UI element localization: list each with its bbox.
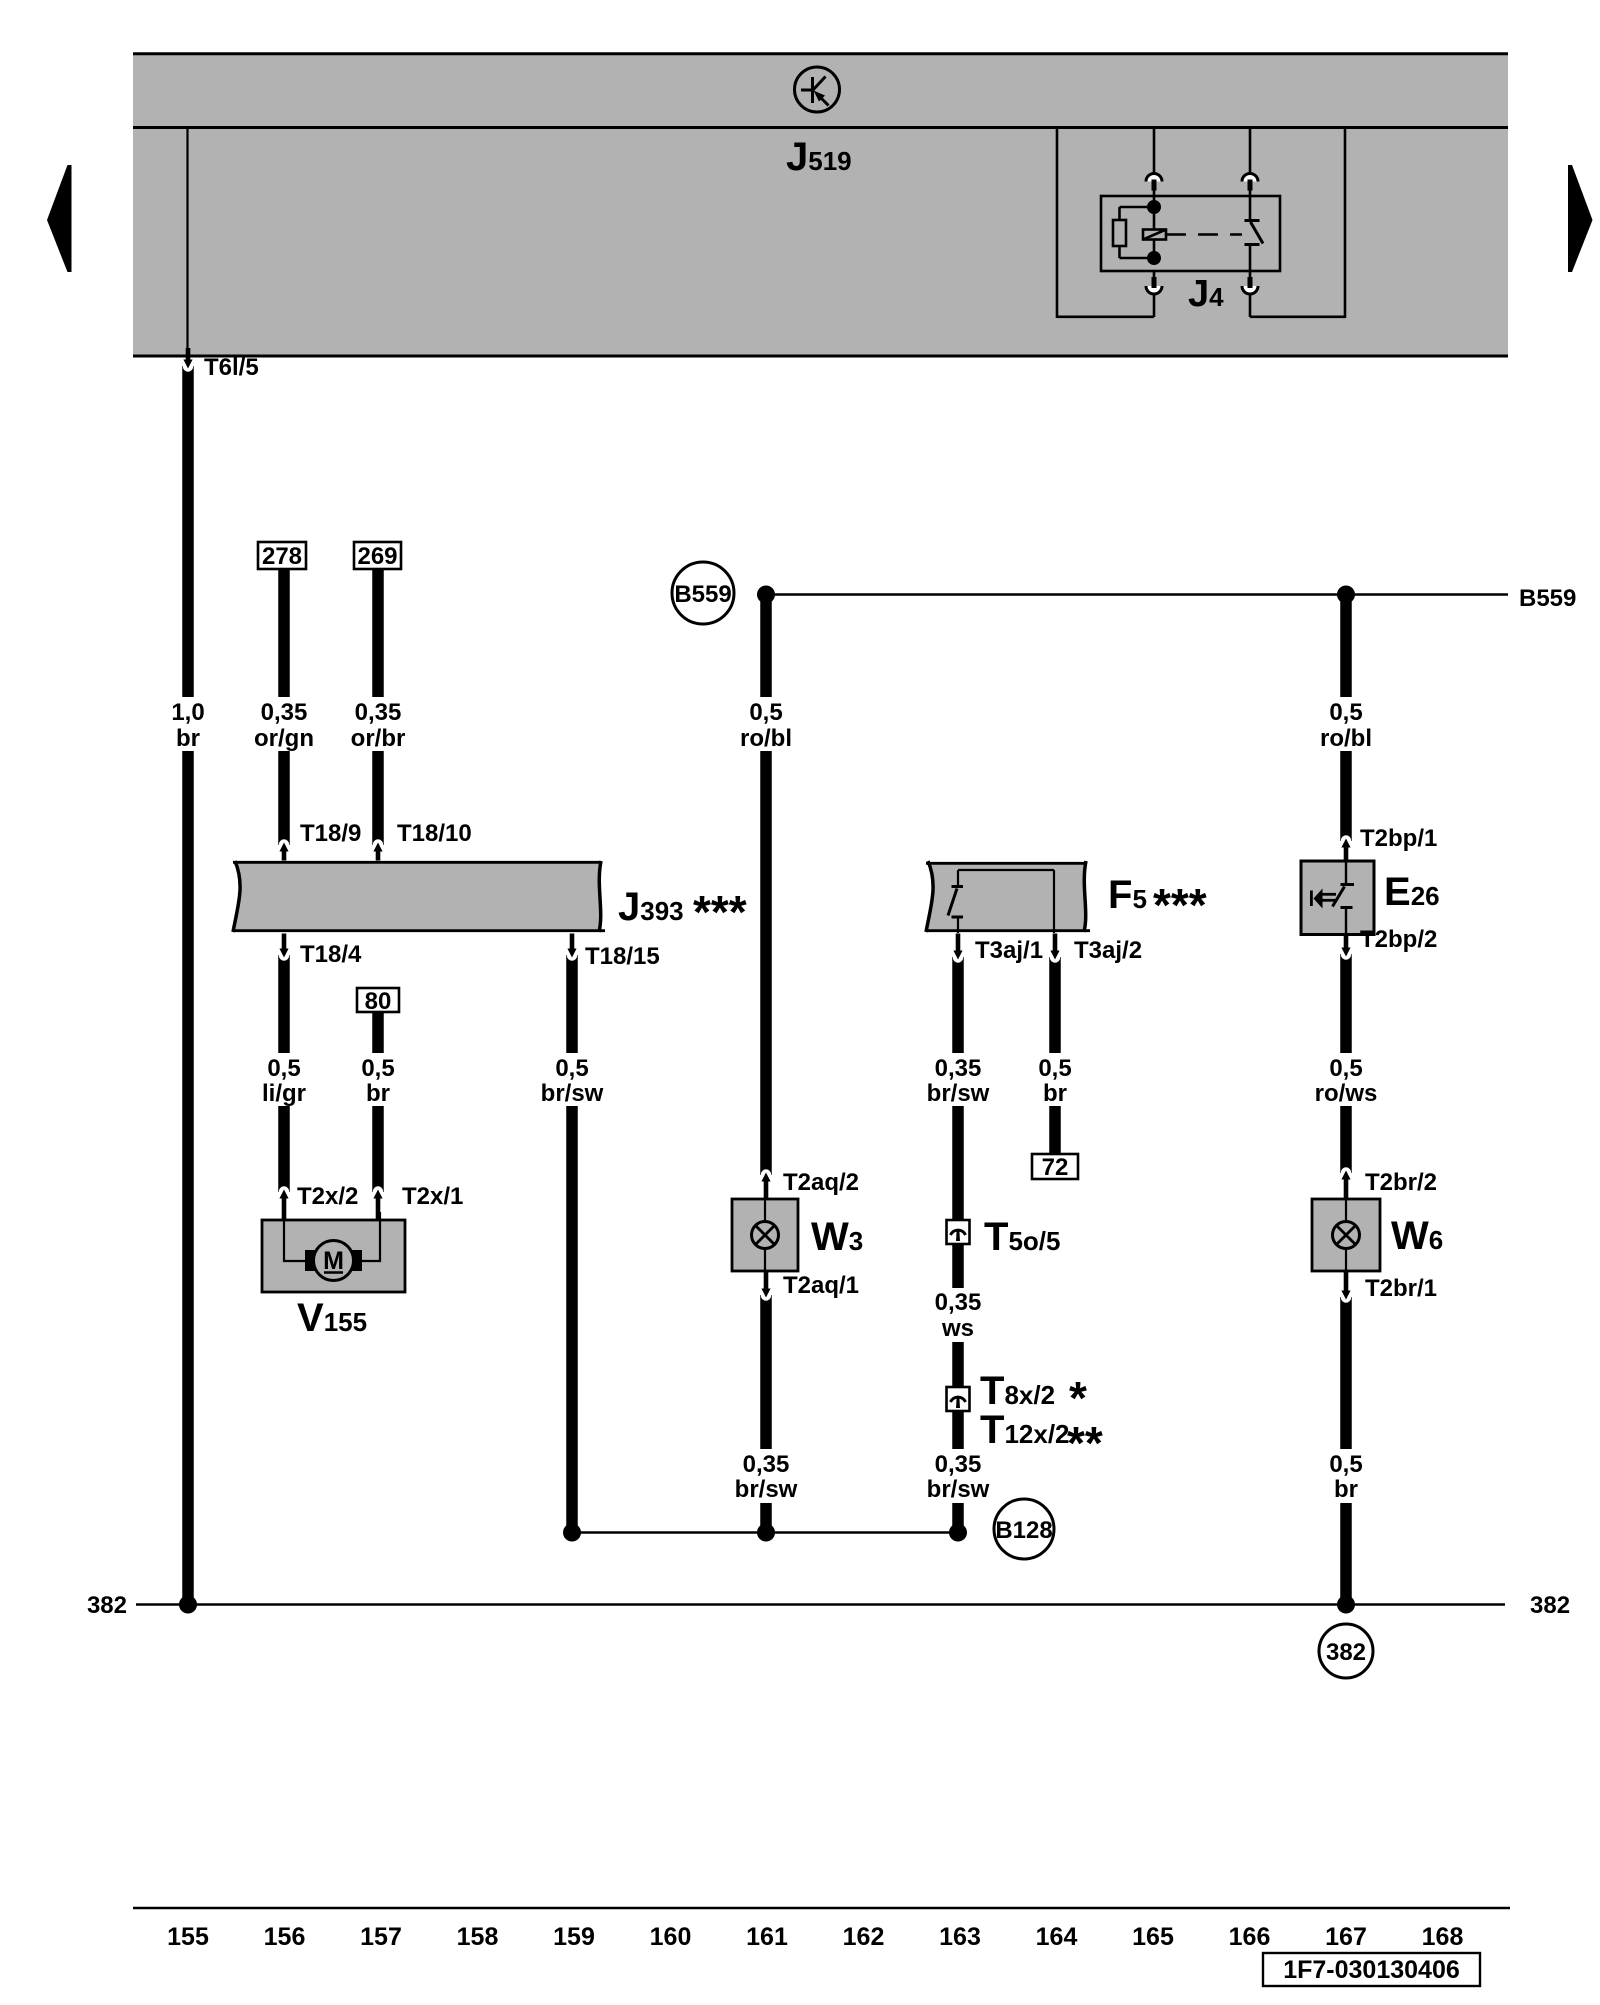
svg-text:0,5: 0,5 xyxy=(1038,1055,1071,1082)
svg-text:T2x/2: T2x/2 xyxy=(297,1183,358,1210)
svg-text:***: *** xyxy=(1153,879,1207,931)
svg-text:br/sw: br/sw xyxy=(927,1476,990,1503)
svg-text:br: br xyxy=(1334,1476,1358,1503)
svg-text:162: 162 xyxy=(843,1923,885,1951)
svg-text:T2br/2: T2br/2 xyxy=(1365,1169,1437,1196)
svg-text:ro/ws: ro/ws xyxy=(1315,1080,1378,1107)
svg-text:161: 161 xyxy=(746,1923,788,1951)
svg-text:157: 157 xyxy=(360,1923,402,1951)
svg-text:0,5: 0,5 xyxy=(555,1055,588,1082)
svg-text:br/sw: br/sw xyxy=(927,1080,990,1107)
svg-text:165: 165 xyxy=(1132,1923,1174,1951)
svg-text:T18/9: T18/9 xyxy=(300,820,361,847)
svg-text:T2aq/2: T2aq/2 xyxy=(783,1169,859,1196)
svg-text:br/sw: br/sw xyxy=(541,1080,604,1107)
svg-text:T18/10: T18/10 xyxy=(397,820,472,847)
svg-text:T2aq/1: T2aq/1 xyxy=(783,1272,859,1299)
svg-text:0,5: 0,5 xyxy=(267,1055,300,1082)
svg-text:382: 382 xyxy=(1530,1592,1570,1619)
svg-text:0,35: 0,35 xyxy=(355,699,402,726)
svg-text:ro/bl: ro/bl xyxy=(1320,725,1372,752)
svg-text:163: 163 xyxy=(939,1923,981,1951)
svg-text:or/br: or/br xyxy=(351,725,406,752)
svg-text:155: 155 xyxy=(167,1923,209,1951)
svg-text:0,35: 0,35 xyxy=(261,699,308,726)
svg-text:159: 159 xyxy=(553,1923,595,1951)
svg-text:ws: ws xyxy=(941,1315,974,1342)
svg-text:T3aj/2: T3aj/2 xyxy=(1074,937,1142,964)
svg-text:166: 166 xyxy=(1229,1923,1271,1951)
svg-text:0,5: 0,5 xyxy=(1329,1451,1362,1478)
svg-text:1,0: 1,0 xyxy=(171,699,204,726)
svg-text:0,35: 0,35 xyxy=(935,1289,982,1316)
svg-text:160: 160 xyxy=(650,1923,692,1951)
svg-text:0,35: 0,35 xyxy=(935,1055,982,1082)
svg-text:br: br xyxy=(176,725,200,752)
svg-text:M: M xyxy=(323,1247,344,1275)
svg-text:T2bp/2: T2bp/2 xyxy=(1360,926,1437,953)
svg-text:T2bp/1: T2bp/1 xyxy=(1360,825,1437,852)
svg-text:or/gn: or/gn xyxy=(254,725,314,752)
svg-text:T18/4: T18/4 xyxy=(300,941,362,968)
svg-text:***: *** xyxy=(693,886,747,938)
svg-text:li/gr: li/gr xyxy=(262,1080,306,1107)
svg-text:72: 72 xyxy=(1042,1154,1069,1181)
svg-text:**: ** xyxy=(1067,1417,1103,1469)
svg-text:br/sw: br/sw xyxy=(735,1476,798,1503)
svg-text:0,5: 0,5 xyxy=(361,1055,394,1082)
svg-text:156: 156 xyxy=(264,1923,306,1951)
svg-text:T3aj/1: T3aj/1 xyxy=(975,937,1043,964)
svg-text:167: 167 xyxy=(1325,1923,1367,1951)
svg-text:382: 382 xyxy=(1326,1639,1366,1666)
svg-text:168: 168 xyxy=(1422,1923,1464,1951)
svg-text:278: 278 xyxy=(262,543,302,570)
svg-text:382: 382 xyxy=(87,1592,127,1619)
svg-text:158: 158 xyxy=(457,1923,499,1951)
svg-text:269: 269 xyxy=(357,543,397,570)
svg-text:br: br xyxy=(1043,1080,1067,1107)
svg-text:B559: B559 xyxy=(1519,585,1576,612)
svg-text:0,35: 0,35 xyxy=(935,1451,982,1478)
svg-text:1F7-030130406: 1F7-030130406 xyxy=(1283,1956,1460,1984)
svg-text:T2br/1: T2br/1 xyxy=(1365,1275,1437,1302)
svg-text:0,35: 0,35 xyxy=(743,1451,790,1478)
svg-text:T18/15: T18/15 xyxy=(585,943,660,970)
svg-text:B559: B559 xyxy=(674,581,731,608)
svg-text:ro/bl: ro/bl xyxy=(740,725,792,752)
svg-text:0,5: 0,5 xyxy=(1329,699,1362,726)
svg-text:br: br xyxy=(366,1080,390,1107)
svg-text:164: 164 xyxy=(1036,1923,1078,1951)
svg-text:0,5: 0,5 xyxy=(749,699,782,726)
svg-text:B128: B128 xyxy=(995,1517,1052,1544)
svg-text:0,5: 0,5 xyxy=(1329,1055,1362,1082)
svg-text:T6l/5: T6l/5 xyxy=(204,354,259,381)
svg-text:T2x/1: T2x/1 xyxy=(402,1183,463,1210)
svg-text:80: 80 xyxy=(365,988,392,1015)
